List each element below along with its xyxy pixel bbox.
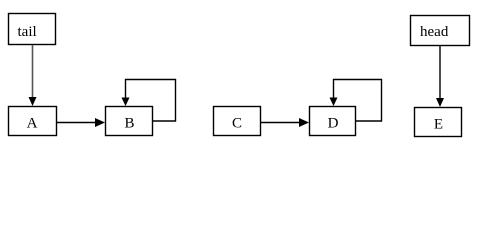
svg-text:D: D xyxy=(328,116,339,132)
svg-text:B: B xyxy=(124,116,134,132)
node D (box) xyxy=(310,107,356,136)
svg-text:E: E xyxy=(434,117,443,133)
svg-text:C: C xyxy=(232,116,242,132)
svg-text:A: A xyxy=(27,116,38,132)
wire C to D (horizontal arrow) xyxy=(261,118,309,127)
svg-text:tail: tail xyxy=(18,24,37,40)
wire A to B (horizontal arrow) xyxy=(57,118,105,127)
svg-text:head: head xyxy=(420,24,449,40)
wire D self-loop xyxy=(330,80,382,122)
node head (box) xyxy=(411,16,470,46)
wire head to E (vertical arrow) xyxy=(436,46,444,107)
node E (box) xyxy=(415,108,462,137)
node tail (box) xyxy=(9,14,56,45)
node C (box) xyxy=(214,107,261,136)
wire B self-loop xyxy=(122,80,176,122)
node B (box) xyxy=(106,107,153,136)
wire tail to A (vertical arrow) xyxy=(29,45,37,106)
node A (box) xyxy=(9,107,57,136)
